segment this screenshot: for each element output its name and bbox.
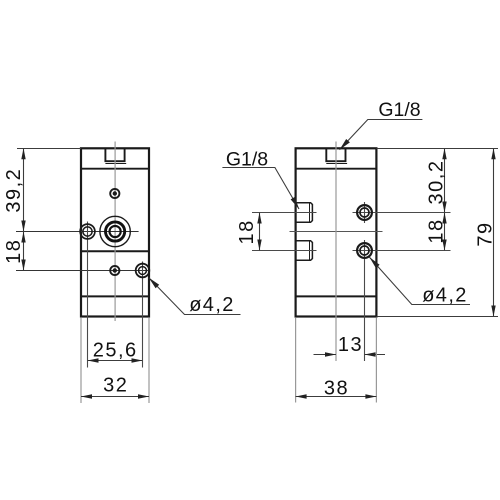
dimension 79 line	[493, 148, 495, 316]
label dia 4,2 right leader	[369, 257, 470, 304]
dimension 39,2 line	[23, 148, 25, 231]
extension line top left	[17, 148, 81, 150]
svg-text:18: 18	[426, 218, 448, 243]
svg-text:13: 13	[338, 334, 363, 356]
right view lower hole crosshair and extension	[353, 250, 451, 252]
right view mid centerline	[290, 231, 383, 233]
svg-text:ø4,2: ø4,2	[422, 285, 468, 307]
label dia 4,2 left view leader	[149, 278, 241, 315]
dimension 25,6 arrows	[88, 358, 99, 362]
right view lower thick line	[296, 295, 377, 297]
left view horizontal centerline through lower holes	[16, 270, 149, 272]
svg-text:25,6: 25,6	[93, 340, 138, 362]
dimension 18 right arrows	[442, 213, 446, 224]
right view body outline	[296, 148, 377, 316]
right view lower port centerline	[252, 250, 317, 252]
extension lines for 38	[295, 318, 297, 403]
right view lower hole dia 4.2	[357, 243, 372, 258]
left view body outline	[81, 148, 149, 316]
dimension 39,2 arrows	[21, 148, 25, 159]
dimension 30,2 line	[444, 148, 446, 212]
svg-text:18: 18	[236, 219, 258, 244]
dimension 18 mid arrows	[257, 213, 261, 224]
left view main port concentric circles	[100, 216, 130, 246]
svg-text:79: 79	[475, 221, 497, 246]
left view top small hole	[110, 189, 119, 198]
left view extension line at pilot hole x=87.8	[87, 222, 89, 368]
extension line top right	[376, 148, 498, 150]
left view vertical centerline	[114, 142, 116, 322]
dimension 30,2 arrows	[442, 148, 446, 159]
left view left hole	[80, 224, 95, 239]
svg-text:38: 38	[324, 378, 349, 400]
dimension 32 arrows	[81, 394, 92, 398]
dimension 25,6 line	[88, 360, 143, 362]
extension lines for 32	[80, 318, 82, 403]
dimension 18 right line	[444, 213, 446, 251]
svg-text:ø4,2: ø4,2	[189, 294, 235, 316]
right view upper side port G1/8 boss	[296, 203, 313, 223]
svg-text:18: 18	[3, 239, 25, 264]
right view line below top	[296, 168, 377, 170]
dimension 79 arrows	[491, 148, 495, 159]
svg-text:G1/8: G1/8	[378, 99, 420, 121]
right view upper port centerline	[252, 212, 317, 214]
left view split line	[81, 250, 149, 252]
right view vertical centerline	[335, 142, 337, 362]
right view lower side port G1/8 boss	[296, 241, 313, 261]
label G1/8 top leader	[340, 120, 423, 150]
dimension 18 left arrows	[21, 232, 25, 243]
left view line below top	[81, 168, 149, 170]
left view lower thick line	[81, 295, 149, 297]
dimension 38 line	[296, 396, 377, 398]
dimension 13 lines	[314, 354, 337, 356]
extension line bottom right	[376, 316, 498, 318]
dimension 38 arrows	[296, 394, 307, 398]
dimension 13 arrows	[325, 352, 336, 356]
right view upper hole crosshair	[353, 212, 451, 214]
dimension 18 mid line	[259, 213, 261, 251]
left view extension line at mounting hole x=142.2	[142, 262, 144, 368]
left view mounting hole dia 4.2	[136, 264, 150, 278]
svg-text:30,2: 30,2	[426, 160, 448, 205]
right view upper hole dia 4.2	[357, 205, 372, 220]
left view top tab	[105, 148, 126, 163]
svg-text:G1/8: G1/8	[226, 148, 268, 170]
dimension 32 line	[81, 396, 149, 398]
dimension 18 left line	[23, 232, 25, 271]
svg-text:39,2: 39,2	[3, 168, 25, 213]
right view top tab	[326, 148, 347, 163]
svg-text:32: 32	[103, 375, 128, 397]
label G1/8 left leader	[222, 168, 299, 210]
left view lower small hole	[110, 266, 119, 275]
left view horizontal centerline through main port	[16, 231, 139, 233]
